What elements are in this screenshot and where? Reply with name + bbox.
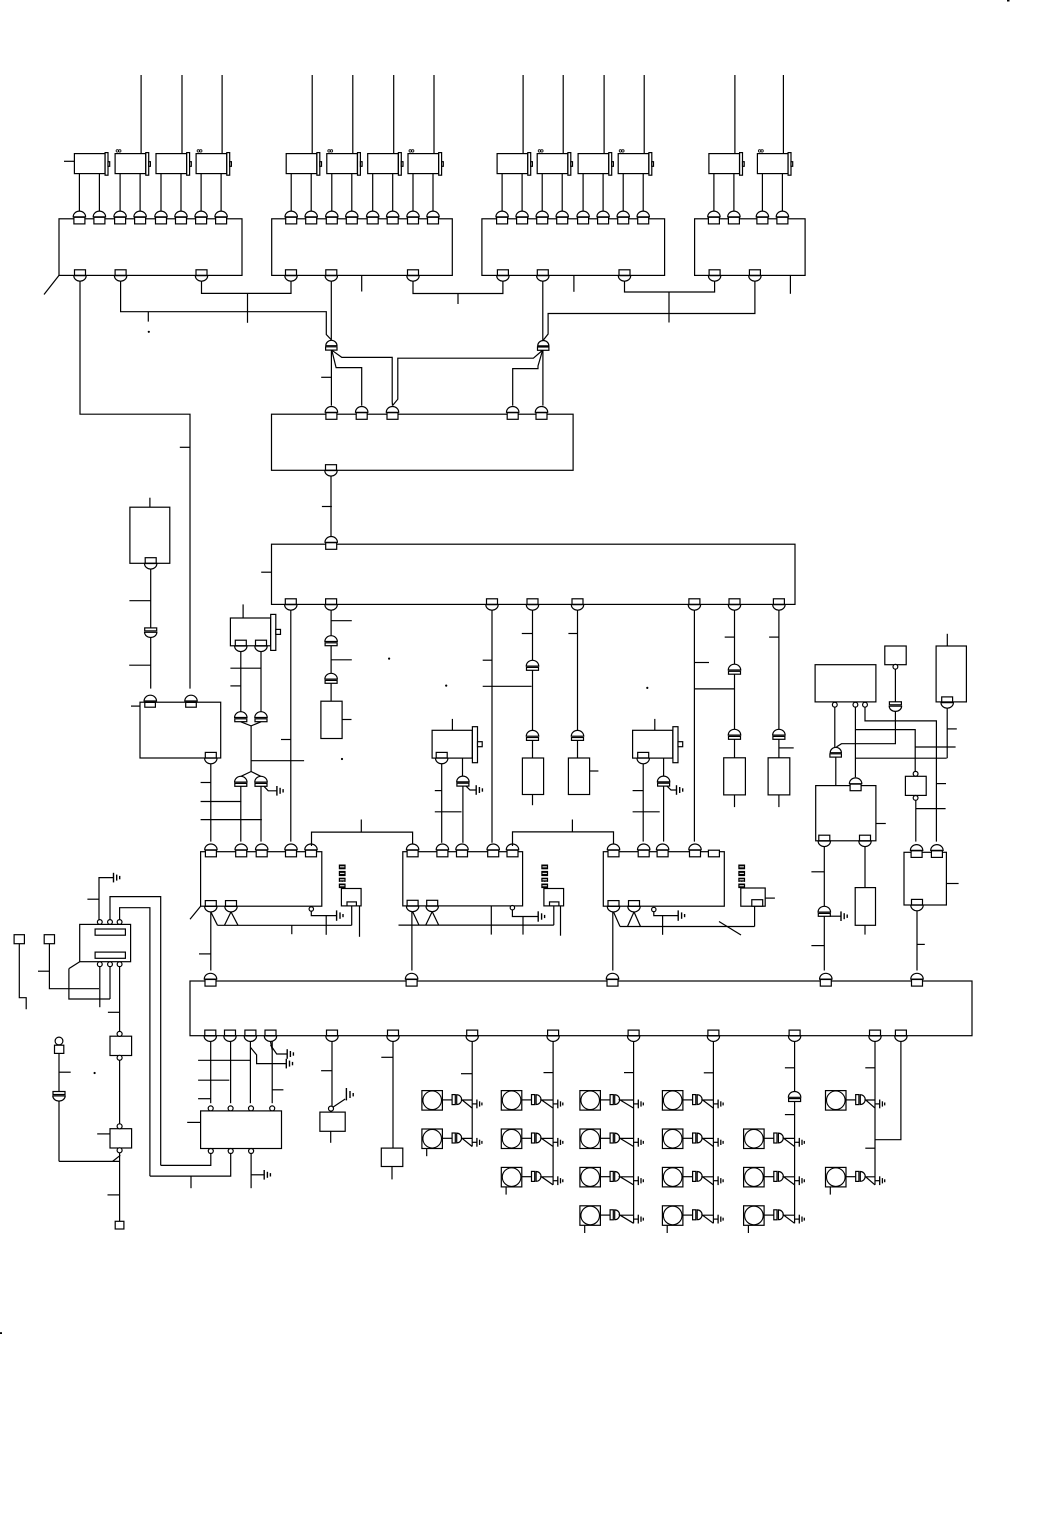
wire U13c2 down [854,707,856,777]
lamp L7 [580,1129,601,1149]
lamp L18 [826,1167,847,1187]
terminal box X3 [741,888,765,906]
slash SW2 wire [113,1155,121,1161]
terminal S3 [115,1221,124,1229]
capacitor C3 [526,660,538,670]
wire J1t3 long [120,908,150,1176]
connector block U3 [482,219,665,276]
stub net L1 [247,293,249,322]
capacitor C18 [818,906,830,916]
pin U6 bottom x290 [285,599,297,610]
pin U19 bottom x472 [466,1030,478,1041]
transformer T11 [74,153,109,176]
stub U2 [361,275,363,291]
pin J1 t3 [117,920,122,925]
wire U16b down [864,847,866,888]
resistor R6 [855,888,875,926]
stub R1 right [342,719,351,721]
ground L2 [477,1138,482,1147]
transformer T34 [618,153,653,176]
pin U1 top 5 [155,211,167,224]
pin U1 top 1 [73,211,85,224]
pin U16 bottom 1 [818,835,830,846]
wire pin T32a [541,174,543,213]
wire gnd lead K2 [264,786,277,791]
wire feed T22 [352,75,354,154]
wire U26b1 [161,1154,211,1166]
pin U9 top x311 [305,844,317,857]
wire C9 down [150,638,152,689]
wire net L1 [202,281,292,293]
wire U2 pin2 to Q1 [330,281,332,340]
ground L9 [638,1215,643,1224]
buzzer L14 [774,1133,784,1143]
tick col D [522,633,533,635]
wire col1 U26 [210,1042,212,1104]
pin J1 b3 [117,962,122,967]
tick U15 wire [947,728,957,730]
rung cols 3 [198,1098,210,1100]
tick col H [769,636,779,638]
logic box U15 [936,646,966,702]
ground GND4 [841,911,847,921]
stub net R2 [668,292,670,323]
wire U14 chain [894,669,896,702]
pin U10 top x442 [436,844,448,857]
ground GND6 [538,911,544,921]
wire col900 [875,1042,901,1140]
wire net R2 [625,281,715,292]
bus U9 [218,924,352,926]
wire S2 down [49,944,99,989]
tick col472 [461,1073,472,1075]
wire L17 lead [846,1099,856,1101]
wire col E low [577,740,579,758]
wire L15 tap [784,1177,795,1185]
wire L18 gndlead [875,1180,880,1182]
stub U10 bottom [490,906,492,935]
stub J1b1 [99,999,101,1007]
wire feed T24 [433,75,435,154]
pin U4 top 3 [756,211,768,224]
label X3 [738,865,745,889]
buzzer L4 [532,1133,542,1143]
label X1 [339,865,346,889]
terminal box X2 [544,889,564,906]
pin U14 c [893,664,898,669]
pin U19 bottom x875 [869,1030,881,1041]
pin U4 bottom 1 [708,270,720,281]
wire U9d1 down [210,912,212,971]
wire left col junction [59,1160,120,1162]
ground L7 [638,1138,643,1147]
wire L6 lead [600,1099,610,1101]
capacitor C20 [53,1092,65,1102]
pin U9 top x241 [235,844,247,857]
ground GND8 [287,1049,293,1059]
pin U5 top x392 [386,407,398,420]
resistor R5 [768,758,790,795]
pin U5 top x512 [507,406,519,419]
tick J1b3 [108,1011,120,1013]
wire feed T42 [782,75,784,154]
rung col C-D [483,685,532,687]
pin U10 top x412 [406,844,418,857]
capacitor C15 [657,776,669,786]
wire net L2 [121,281,332,340]
pin K1 bottom [145,558,157,569]
wire L10 gndlead [713,1103,718,1105]
stub L13 [666,1225,668,1233]
wire U14 chain 2 [837,712,896,747]
stub R4 down [734,795,736,807]
ground GND9 [286,1059,292,1069]
pin U6 bottom x532 [526,599,538,610]
stub bus U9 [291,925,293,934]
capacitor C8 [773,729,785,739]
wire feed T41 [734,75,736,154]
transformer T32 [537,153,572,176]
wire pin T23b [392,174,394,213]
wire feed T12 [140,75,142,154]
capacitor C19 [788,1092,800,1102]
polarity mark T14 [197,150,202,152]
wire pin T24b [432,174,434,213]
dot 2 [388,658,390,660]
pin U17 top [913,771,918,776]
ground L14 [799,1138,804,1147]
wire L16 tap [784,1215,795,1223]
wire bus to X1 [351,906,353,925]
wire L16 lead [764,1214,774,1216]
wire col B low [330,683,332,701]
wire U9 circle gnd [311,911,336,915]
buzzer L17 [856,1095,866,1105]
tick col875 2 [865,1147,875,1149]
transformer T41 [709,153,744,176]
ground L16 [799,1215,804,1224]
wire U11d2 diag [628,912,635,927]
pin U6 bottom x577 [571,599,583,610]
aux box U28 [381,1148,403,1166]
capacitor C9 [145,628,157,638]
pin U13 c3 [863,702,868,707]
wire U18 down [916,911,918,971]
wire C18 down [823,916,825,970]
tick col794 2 [785,1114,795,1116]
pin U26 top 3 [249,1106,254,1111]
pin U6 top [325,537,337,550]
pin U19 top x825 [820,973,832,986]
pin U7 bottom [205,752,217,763]
ground L13 [718,1215,723,1224]
buzzer L10 [693,1095,703,1105]
wire X1 right [359,906,361,937]
lamp L12 [662,1167,683,1187]
wire col B mid [330,646,332,674]
wire feed T21 [311,75,313,154]
buzzer L11 [693,1133,703,1143]
pin U3 top 2 [516,211,528,224]
polarity mark T22 [328,150,333,152]
connector block U1 [59,219,242,276]
corner tick U1 [44,275,59,294]
wire pin T31a [501,174,503,213]
wire pin T41a [713,174,715,213]
pin U2 top 2 [305,211,317,224]
wire L6 gndlead [634,1103,639,1105]
pin U19 bottom x713 [707,1030,719,1041]
pin X1 [347,902,356,906]
wire pin T21b [310,174,312,213]
capacitor C5 [571,730,583,740]
wire L11 tap [703,1138,714,1146]
transformer T33 [578,153,613,176]
lamp L5 [501,1167,522,1187]
capacitor C12 [235,776,247,786]
pin K4 bottom [637,752,649,763]
wire pin T34b [642,174,644,213]
wire U11d1 down [612,912,614,971]
pin U13 c2 [853,702,858,707]
bus U10 [399,924,554,926]
stub R6 down [864,925,866,934]
buzzer L16 [774,1210,784,1220]
tick col C [483,659,492,661]
wire L2 gndlead [472,1141,477,1143]
stub U15 top [946,634,948,646]
tick U9d1 [199,953,211,955]
pin U3 top 4 [556,211,568,224]
stub L16 [747,1225,749,1233]
tick P1 wire [59,1071,71,1073]
pin U16 top [849,778,861,791]
pin K3 bottom [436,752,448,763]
wire L11 gndlead [713,1141,718,1143]
wire col D low [532,740,534,758]
stub U3 [573,275,575,291]
tick U16a 1 [811,871,824,873]
logic box U13 [815,665,876,702]
pin J1 t2 [108,920,113,925]
pin U19 bottom x210 [204,1030,216,1041]
pin U5 top x331 [325,406,337,419]
wire gnd to J1 [99,878,114,920]
capacitor C1 [325,636,337,646]
ground L18 [880,1176,885,1185]
wire Q2 e1 [542,351,544,406]
pin U2 top 6 [387,211,399,224]
tick col875 [865,1067,875,1069]
corner tick J1 [69,962,80,969]
wire feed T13 [181,75,183,154]
pin U19 bottom x553 [547,1030,559,1041]
wire U17 down [915,800,917,841]
wire L1 gndlead [472,1103,477,1105]
stub L18 [829,1187,831,1195]
pin U19 bottom x794 [788,1030,800,1041]
wire col472 [471,1042,473,1147]
wire P1 down [58,1053,60,1091]
pin U19 top x917 [911,973,923,986]
transformer T21 [286,153,321,176]
pin U26 bottom 1 [208,1149,213,1154]
pin U26 top 4 [270,1106,275,1111]
wire col3 U26 [249,1042,251,1104]
aux box U27 [320,1112,345,1131]
lamp L17 [826,1091,847,1111]
switch box SW2 [110,1129,132,1148]
tick U13c3 path [936,783,946,785]
rung col F-G [694,688,734,690]
pin U18 bottom [911,899,923,910]
pin U10 top x462 [456,844,468,857]
driver box U7 [140,702,221,758]
pin U9 top x261 [256,844,268,857]
wire U3 pin2 to Q2 [542,281,544,340]
wire pin T34a [622,174,624,213]
wire J1t2 long [110,897,161,1166]
wire U26b3 [250,1154,252,1189]
wire pin T31b [521,174,523,213]
pin U1 top 2 [93,211,105,224]
wire pin T32b [561,174,563,213]
pin U26 bottom 3 [249,1149,254,1154]
wire col C (U6.3 to U10) [491,610,493,843]
pin U10 bottom 2 [426,900,438,911]
wire col E upper [577,610,579,730]
wire col794 b [794,1102,796,1224]
buzzer L8 [610,1171,620,1181]
wire U16a down [823,847,825,907]
wire pin T14b [220,174,222,213]
ground GND11 [346,1088,353,1100]
wire L18 tap [866,1177,875,1185]
wire gnd lead K4 [667,786,677,790]
ground L8 [638,1176,643,1185]
buzzer L15 [774,1171,784,1181]
stub K4 top [654,719,656,730]
pin U26 bottom 2 [228,1149,233,1154]
tick K2a [230,685,240,687]
wire U10d2 diag [426,912,433,926]
wire feed T31 [522,75,524,154]
capacitor C14 [457,776,469,786]
label X2 [541,865,548,889]
lamp L6 [580,1091,601,1111]
wire U26b2 [150,1154,231,1177]
tick col H 2 [779,747,794,749]
wire bus to X2 [553,906,555,925]
pin U1 bottom 1 [74,270,86,281]
stub net L2 [147,312,149,322]
pin U5 bottom [325,465,337,476]
tick col713 [704,1072,714,1074]
wire gnd branch c4 [271,1045,288,1054]
pin U1 bottom 3 [195,270,207,281]
capacitor C10 [235,712,247,722]
controller box U26 [201,1111,282,1149]
tick C9 wire [129,664,151,666]
wire link1 [312,832,413,846]
stub L9 [584,1225,586,1233]
pin U19 bottom x230 [224,1030,236,1041]
pin U3 top 5 [577,211,589,224]
tick col4 [272,1089,283,1091]
pin U19 top x612 [606,973,618,986]
pin U16 bottom 2 [859,835,871,846]
wire L8 gndlead [634,1180,639,1182]
buzzer L12 [693,1171,703,1181]
pin U6 bottom x331 [325,599,337,610]
wire cross 747 [915,746,955,748]
pin U5 top x541 [535,406,547,419]
wire pin T24a [412,174,414,213]
tick U26 left [187,1121,200,1123]
wire pin T23a [372,174,374,213]
wire col B upper [330,610,332,636]
wire pin T42b [781,174,783,213]
terminal S1 [14,935,24,944]
polarity mark T24 [409,150,414,152]
wire col A (U6.1 to U9) [290,610,292,841]
tick col794 [785,1067,795,1069]
transformer T31 [497,153,532,176]
wire K2 branch right [251,760,304,762]
wire pin T11b [98,174,100,213]
ground L12 [718,1176,723,1185]
wire pin T13a [160,174,162,213]
relay K2 [230,614,280,650]
rung cols 1 [198,1059,251,1061]
wire U10 circle gnd [512,910,538,917]
pin U18 top 1 [910,845,922,858]
wire L4 tap [542,1138,554,1146]
ground L6 [638,1100,643,1109]
wire U10d1 diag [413,912,419,926]
wire col G low [734,739,736,758]
transformer T23 [368,153,403,176]
pin SW2 bottom [117,1148,122,1153]
ground GND12 [114,873,120,883]
tick U16 right [876,823,886,825]
pin U7 top pad2 [186,702,197,707]
wire pin T21a [290,174,292,213]
pin U19 top x411 [405,973,417,986]
wire L13 tap [703,1215,714,1223]
wire net R3 [543,281,755,340]
pin U1 top 8 [215,211,227,224]
connector block U4 [695,219,806,276]
wire pin T11a [78,174,80,213]
tick col F [694,662,709,664]
wire X2 right [560,906,562,936]
wire pin T22b [351,174,353,213]
bus U11 [620,926,755,928]
wire L3 lead [522,1099,532,1101]
terminal S2 [44,935,54,944]
stub R5 down [778,795,780,807]
tick U7 left [131,705,140,707]
pin X3 [752,900,763,907]
wire feed T33 [603,75,605,154]
connector block U2 [272,219,453,276]
wire col794 a [794,1042,796,1092]
wire col4 U26 [271,1042,273,1104]
interface box U18 [904,852,946,905]
lamp L11 [662,1129,683,1149]
rung cols 2 [198,1079,229,1081]
